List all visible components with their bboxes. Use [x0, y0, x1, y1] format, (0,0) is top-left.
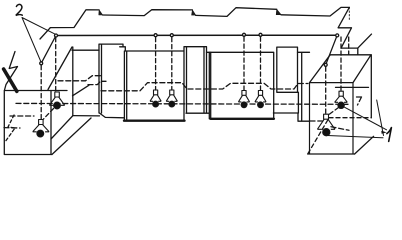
hidden dashed line D1 left part [58, 76, 103, 81]
lamp L1 (left box lower) [33, 120, 49, 138]
wire drop to lamp A1 [155, 38, 157, 91]
lamp R2 (right box lower) [317, 114, 335, 136]
hanger circle left box [40, 62, 43, 65]
wire drop to lamp L1 [40, 66, 42, 120]
lamp A1 [150, 90, 161, 107]
roof right hidden vertical (dotted) [348, 7, 350, 21]
gallery bottom left part [73, 115, 100, 117]
left box bottom-right oblique to gallery [51, 116, 91, 155]
roof wedge 2 [192, 10, 196, 15]
cable (lighting line) [56, 34, 337, 36]
dashed chain left box L2->L1 [44, 109, 54, 120]
cable drop left [41, 36, 56, 64]
hanger circle cable right end [336, 34, 339, 37]
hidden dashed lamp line [16, 97, 362, 105]
pillar P1 [99, 44, 125, 113]
roof wedge 1 [99, 10, 103, 15]
hanger circle above lamp A2 [170, 34, 173, 37]
lamp B1 [238, 91, 249, 108]
bold direction arrow [4, 69, 17, 91]
wire drop at right end corner [348, 37, 350, 54]
hidden floor edge visible at left end [73, 85, 90, 96]
roof left end cut [40, 28, 50, 39]
wire drop to lamp L2 [55, 38, 57, 92]
wire drop to lamp B2 [260, 37, 262, 91]
section B left edge doubles [209, 52, 210, 118]
label 2 [16, 4, 22, 15]
roof back stepped outline [50, 7, 349, 27]
wire drop to lamp R1 [340, 37, 342, 91]
right connector piece [298, 52, 310, 121]
hanger circle cable left end [55, 34, 58, 37]
hidden dashes left box bottom-back [4, 116, 349, 130]
left box top-right oblique edge [48, 47, 72, 90]
label 1 [387, 128, 392, 142]
section A heavy bottom [124, 119, 185, 121]
section B front face [207, 52, 274, 119]
section A front face [124, 47, 184, 120]
roof right end double zigzag [338, 7, 358, 54]
lamp R1 (right box upper) [335, 91, 348, 108]
lamp A2 [166, 90, 177, 107]
right box inner ledge line [336, 86, 369, 88]
label 2 leader lines [22, 18, 55, 62]
wire drop to lamp A2 [171, 38, 173, 91]
hidden dashed line D1 main run with jogs up through sections [101, 83, 308, 91]
hanger circle right box [324, 63, 327, 66]
label 1 leader lines [328, 100, 387, 138]
roof wedge 3 [276, 9, 281, 14]
section B heavy bottom [210, 118, 274, 120]
right box right side [355, 55, 374, 154]
right box front face [308, 83, 355, 154]
dashed chain right box R1->R2 [329, 108, 339, 115]
pillar P2 [184, 47, 209, 114]
gallery front-top line: connector A [72, 49, 99, 51]
gallery bottom right part [273, 113, 309, 121]
right box hidden bottom edges [308, 118, 329, 154]
lamp L2 (left box upper) [49, 92, 64, 109]
wire drop to lamp B1 [243, 37, 245, 91]
pillar P3 [277, 47, 299, 113]
hanger circle above lamp B2 [259, 33, 262, 36]
lamp B2 [255, 91, 266, 108]
gallery left end vertical [72, 47, 74, 116]
leader arrow wedge [381, 131, 386, 134]
right box top face [310, 55, 372, 83]
hanger circle above lamp A1 [154, 34, 157, 37]
lamps [33, 90, 348, 137]
hanger circle above lamp B1 [243, 33, 246, 36]
pillar P1 bottom ramp [99, 113, 124, 118]
left box break zigzag top [5, 52, 18, 91]
wire drop to lamp R2 [325, 67, 327, 114]
dashed break zigzag bottom-left [5, 115, 15, 142]
left box front face [4, 91, 67, 155]
cable drop right [326, 35, 338, 65]
